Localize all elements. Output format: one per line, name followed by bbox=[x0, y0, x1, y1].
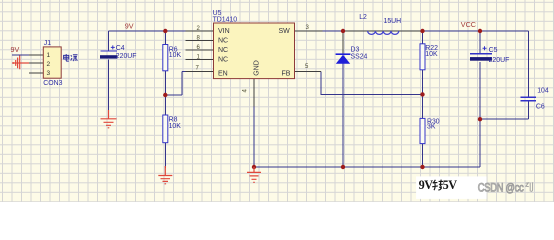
svg-text:220UF: 220UF bbox=[116, 53, 137, 60]
svg-text:3K: 3K bbox=[427, 123, 436, 130]
svg-text:9V: 9V bbox=[419, 178, 434, 192]
svg-text:15UH: 15UH bbox=[384, 18, 402, 25]
svg-text:5V: 5V bbox=[443, 178, 458, 192]
svg-text:220UF: 220UF bbox=[489, 57, 510, 64]
svg-text:VIN: VIN bbox=[218, 28, 230, 35]
svg-text:10K: 10K bbox=[169, 52, 182, 59]
svg-text:9V: 9V bbox=[11, 45, 20, 54]
svg-text:CON3: CON3 bbox=[43, 80, 62, 87]
svg-text:10K: 10K bbox=[425, 51, 438, 58]
svg-text:CSDN @cc: CSDN @cc bbox=[478, 182, 524, 195]
svg-text:C5: C5 bbox=[489, 47, 498, 54]
svg-text:2: 2 bbox=[47, 61, 51, 68]
svg-text:C4: C4 bbox=[116, 45, 125, 52]
svg-text:NC: NC bbox=[218, 38, 228, 45]
svg-text:NC: NC bbox=[218, 47, 228, 54]
svg-text:3: 3 bbox=[47, 70, 51, 77]
svg-text:SW: SW bbox=[279, 28, 291, 35]
svg-text:C6: C6 bbox=[536, 103, 545, 110]
svg-text:J1: J1 bbox=[44, 40, 51, 47]
svg-text:FB: FB bbox=[282, 71, 291, 78]
svg-text:9V: 9V bbox=[125, 22, 134, 31]
svg-text:TD1410: TD1410 bbox=[213, 16, 238, 23]
svg-text:NC: NC bbox=[218, 57, 228, 64]
svg-text:SS24: SS24 bbox=[351, 53, 368, 60]
svg-text:GND: GND bbox=[254, 60, 261, 76]
svg-text:104: 104 bbox=[537, 87, 549, 94]
svg-text:10K: 10K bbox=[169, 123, 182, 130]
svg-text:VCC: VCC bbox=[461, 20, 476, 29]
svg-text:1: 1 bbox=[47, 52, 51, 59]
svg-text:L2: L2 bbox=[359, 14, 367, 21]
svg-text:EN: EN bbox=[218, 71, 228, 78]
